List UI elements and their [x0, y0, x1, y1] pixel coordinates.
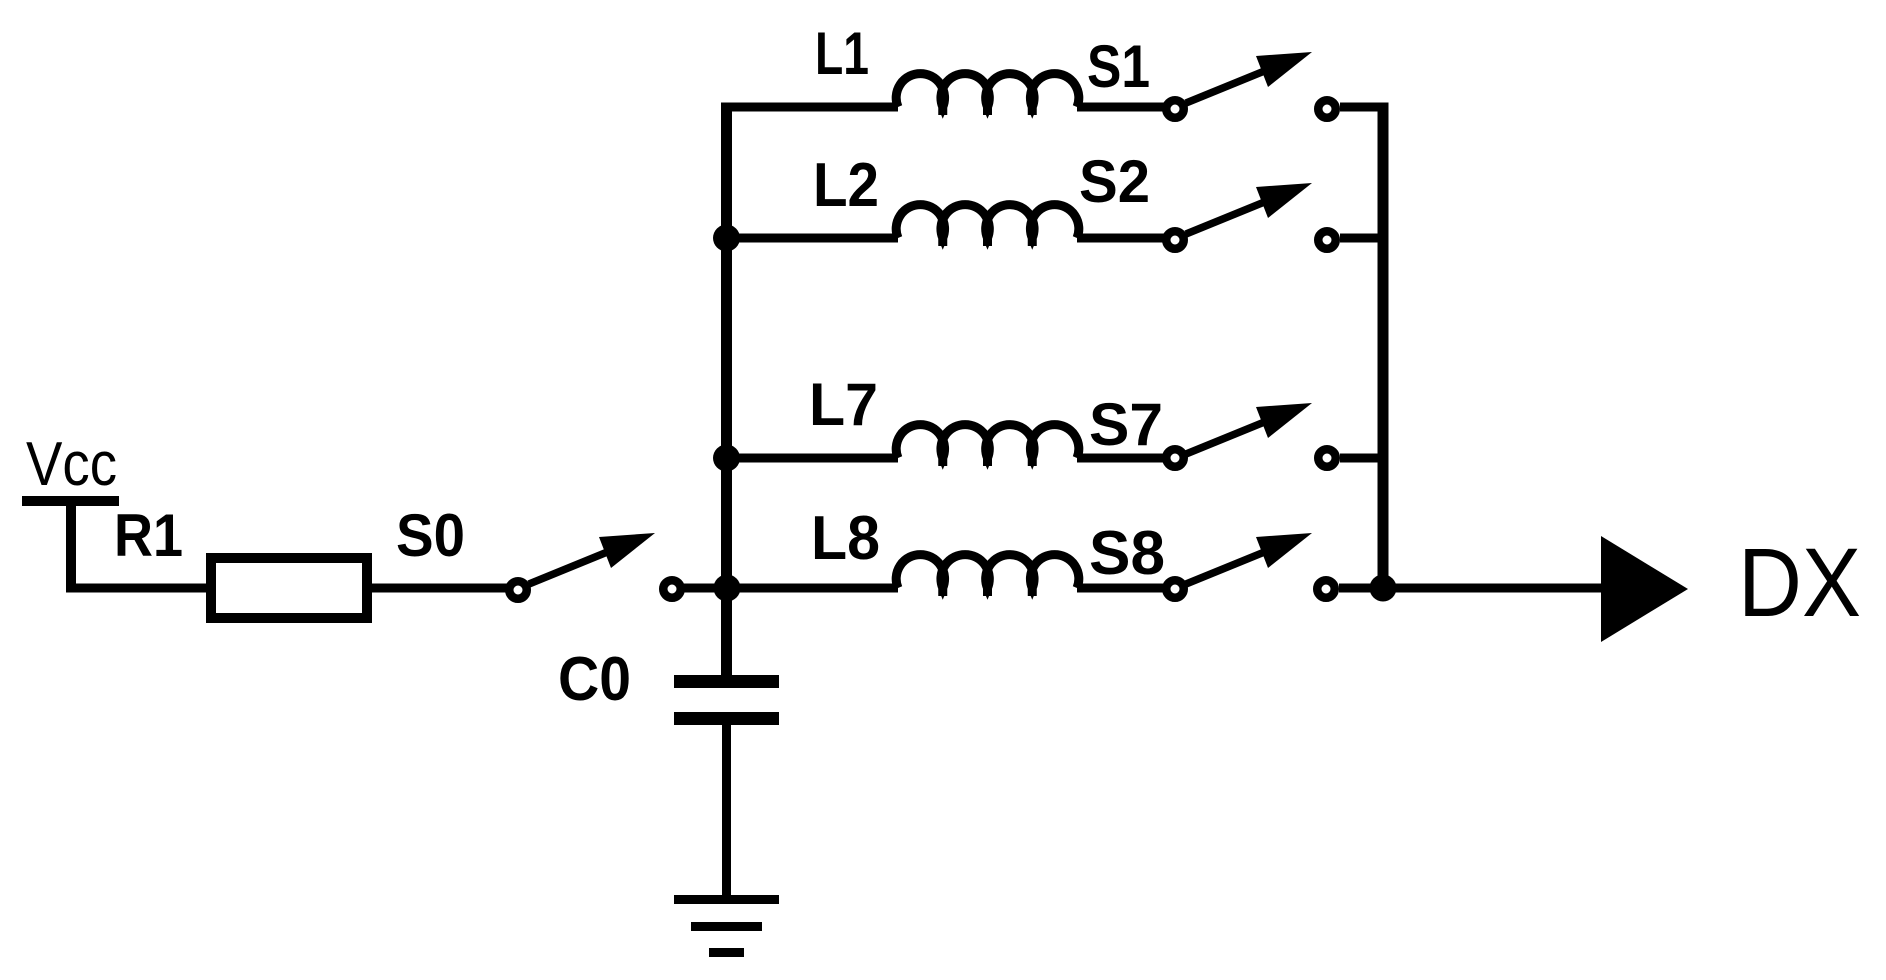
wire L8 to S8 — [1077, 584, 1164, 593]
wire right bus — [1378, 103, 1389, 589]
switch S8 — [1166, 533, 1335, 598]
switch S0 — [509, 533, 681, 599]
svg-text:C0: C0 — [558, 645, 631, 714]
switch S2 — [1166, 183, 1336, 249]
wire S2 to right bus — [1340, 234, 1388, 243]
ground — [674, 900, 779, 953]
wire left bus — [721, 103, 732, 677]
switch S1 — [1166, 52, 1336, 118]
svg-text:Vcc: Vcc — [26, 430, 117, 499]
svg-text:L1: L1 — [815, 20, 869, 87]
wire S0 to node — [683, 584, 727, 593]
Vcc power bar — [22, 496, 119, 506]
wire L2 to S2 — [1077, 234, 1164, 243]
wire row3 bus to L7 — [722, 454, 898, 463]
wire S8 to output node — [1339, 584, 1388, 593]
inductor L2 — [896, 205, 1079, 246]
svg-text:S7: S7 — [1089, 391, 1163, 458]
wire S7 to right bus — [1340, 454, 1388, 463]
wire S1 to right bus — [1340, 103, 1388, 112]
inductor L1 — [896, 74, 1079, 115]
resistor R1 body — [211, 558, 367, 618]
wire row2 bus to L2 — [722, 234, 898, 243]
svg-text:L7: L7 — [809, 371, 878, 438]
svg-text:S1: S1 — [1087, 33, 1150, 100]
svg-text:R1: R1 — [114, 502, 183, 569]
svg-text:S0: S0 — [396, 502, 465, 569]
arrowhead DX output — [1601, 536, 1688, 642]
capacitor C0 — [674, 682, 779, 896]
node junction S0/C0/L8 — [714, 575, 741, 602]
wire L1 to S1 — [1077, 103, 1164, 112]
wire output to DX — [1383, 584, 1604, 593]
svg-text:DX: DX — [1738, 528, 1861, 637]
svg-text:L2: L2 — [813, 151, 879, 220]
svg-text:S8: S8 — [1089, 519, 1165, 588]
inductor L7 — [896, 425, 1079, 466]
wire row4 node to L8 — [727, 584, 898, 593]
switch S7 — [1166, 403, 1336, 467]
inductor L8 — [896, 555, 1079, 596]
wire L7 to S7 — [1077, 454, 1164, 463]
node junction left bus row2 — [713, 225, 740, 252]
wire row1 bus to L1 — [722, 103, 898, 112]
node junction left bus row3 — [713, 445, 740, 472]
wire Vcc stub down — [66, 501, 76, 588]
wire R1 to S0 — [372, 584, 507, 593]
wire Vcc to R1 — [66, 584, 208, 593]
svg-text:L8: L8 — [811, 504, 880, 573]
node junction output — [1370, 575, 1397, 602]
svg-text:S2: S2 — [1079, 148, 1150, 215]
